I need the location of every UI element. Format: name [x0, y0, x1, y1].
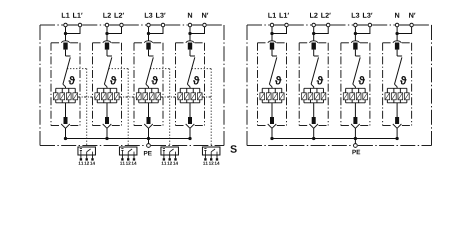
- dotted module boundary left L2: [109, 69, 129, 147]
- remote signalling contact FM1: [78, 147, 96, 165]
- wire: [107, 27, 122, 34]
- junction on PE bus: [395, 137, 398, 140]
- wire: [396, 27, 398, 41]
- wire: [189, 103, 191, 117]
- wire: [397, 27, 412, 34]
- wire: [65, 50, 67, 56]
- wire: [272, 27, 287, 34]
- label L2 L2: [310, 13, 331, 18]
- wire: [354, 27, 356, 41]
- wire: [271, 27, 273, 41]
- wire: [148, 128, 150, 138]
- thermal disconnector (bottom) right L1: [268, 117, 277, 128]
- thermal switch (disconnector) left L1: [63, 56, 71, 87]
- wire: [396, 128, 398, 138]
- terminal L2 (right L2): [312, 23, 316, 27]
- junction node L3: [354, 32, 357, 35]
- terminal N' (right N): [410, 23, 414, 27]
- thermal switch (disconnector) right L1: [269, 56, 277, 87]
- thermal disconnector (bottom) right N: [393, 117, 402, 128]
- dash-dot link at varistor level: [202, 96, 211, 98]
- dash-dot link at varistor level: [119, 96, 136, 98]
- thermal switch (disconnector) left N: [187, 56, 195, 87]
- varistor array left L1 (4 parallel varistors): [53, 87, 77, 103]
- wire: [148, 103, 150, 117]
- junction on PE bus: [64, 137, 67, 140]
- inner dash-dot enclosure (protection path left L1): [51, 43, 80, 126]
- thermal disconnector (bottom) left N: [186, 117, 195, 128]
- outer dash-dot enclosure (left SPD block): [40, 25, 224, 146]
- thermal switch (disconnector) right N: [395, 56, 403, 87]
- inner dash-dot enclosure (protection path right L3): [341, 43, 370, 126]
- varistor array left L2 (4 parallel varistors): [95, 87, 119, 103]
- terminal L1' (left L1): [78, 23, 82, 27]
- varistor array left L3 (4 parallel varistors): [136, 87, 160, 103]
- wire: [313, 27, 315, 41]
- junction on PE bus: [147, 137, 150, 140]
- wire: [313, 103, 315, 117]
- junction on PE bus: [270, 137, 273, 140]
- thermal disconnector (bottom) right L3: [351, 117, 360, 128]
- junction node N: [395, 32, 398, 35]
- dotted module boundary left L3: [150, 69, 170, 147]
- thermal disconnector (top) right L2: [310, 41, 318, 50]
- wire PE stub: [148, 139, 150, 144]
- thermal disconnector (bottom) left L1: [61, 117, 70, 128]
- wire: [65, 128, 67, 138]
- wire: [314, 27, 329, 34]
- inner dash-dot enclosure (protection path left N): [176, 43, 205, 126]
- label PE: [144, 151, 152, 155]
- label temperature symbol: [110, 76, 117, 85]
- label temperature symbol: [69, 76, 76, 85]
- wire: [271, 50, 273, 56]
- terminal L3 (left L3): [147, 23, 151, 27]
- label temperature symbol: [358, 76, 365, 85]
- wire: [190, 27, 205, 34]
- terminal L2 (left L2): [105, 23, 109, 27]
- varistor array right L2 (4 parallel varistors): [302, 87, 326, 103]
- label N N: [188, 13, 208, 18]
- varistor array right L3 (4 parallel varistors): [343, 87, 367, 103]
- junction node L1: [270, 32, 273, 35]
- terminal L3' (left L3): [161, 23, 165, 27]
- inner dash-dot enclosure (protection path left L3): [134, 43, 163, 126]
- label temperature symbol: [400, 76, 407, 85]
- label L3 L3: [145, 13, 166, 18]
- wire: [354, 103, 356, 117]
- wire: [106, 103, 108, 117]
- thermal disconnector (top) right L3: [351, 41, 359, 50]
- wire: [355, 27, 370, 34]
- label L1 L1: [268, 13, 289, 18]
- wire: [396, 103, 398, 117]
- label N N: [395, 13, 415, 18]
- junction node L2: [312, 32, 315, 35]
- dash-dot link at varistor level: [78, 96, 95, 98]
- outer dash-dot enclosure (right SPD block): [247, 25, 432, 146]
- remote signalling contact FM2: [119, 147, 137, 165]
- thermal disconnector (top) right L1: [268, 41, 276, 50]
- inner dash-dot enclosure (protection path right L2): [299, 43, 328, 126]
- wire: [106, 50, 108, 56]
- label temperature symbol: [275, 76, 282, 85]
- junction on PE bus: [188, 137, 191, 140]
- wire: [354, 50, 356, 56]
- thermal disconnector (top) left N: [186, 41, 194, 50]
- wire: [189, 50, 191, 56]
- junction node L1: [64, 32, 67, 35]
- wire PE stub: [354, 139, 356, 144]
- thermal disconnector (bottom) left L3: [144, 117, 153, 128]
- junction on PE bus: [312, 137, 315, 140]
- thermal switch (disconnector) right L3: [353, 56, 361, 87]
- varistor array right L1 (4 parallel varistors): [260, 87, 284, 103]
- thermal switch (disconnector) left L3: [146, 56, 154, 87]
- thermal disconnector (bottom) right L2: [309, 117, 318, 128]
- label L1 L1: [62, 13, 83, 18]
- label temperature symbol: [152, 76, 159, 85]
- label PE: [352, 150, 360, 154]
- label temperature symbol: [317, 76, 324, 85]
- wire: [396, 50, 398, 56]
- wire: [148, 27, 150, 41]
- terminal L1' (right L1): [285, 23, 289, 27]
- wire: [189, 128, 191, 138]
- terminal L2' (left L2): [120, 23, 124, 27]
- inner dash-dot enclosure (protection path left L2): [93, 43, 122, 126]
- wire: [106, 27, 108, 41]
- thermal disconnector (top) left L3: [144, 41, 152, 50]
- wire: [313, 128, 315, 138]
- wire: [354, 128, 356, 138]
- wire: [65, 103, 67, 117]
- junction node L2: [105, 32, 108, 35]
- varistor array right N (4 parallel varistors): [385, 87, 409, 103]
- label S (remote signalling version): [230, 145, 236, 153]
- thermal switch (disconnector) left L2: [104, 56, 112, 87]
- wire: [189, 27, 191, 41]
- dash-dot link at varistor level: [161, 96, 178, 98]
- label temperature symbol: [193, 76, 200, 85]
- dotted module boundary left N: [192, 69, 212, 147]
- junction node L3: [147, 32, 150, 35]
- wire: [313, 50, 315, 56]
- wire: [271, 103, 273, 117]
- terminal N (right N): [395, 23, 399, 27]
- junction on PE bus: [354, 137, 357, 140]
- inner dash-dot enclosure (protection path right L1): [258, 43, 287, 126]
- terminal L3' (right L3): [368, 23, 372, 27]
- terminal PE: [354, 144, 358, 148]
- thermal disconnector (top) right N: [393, 41, 401, 50]
- PE bus wire: [66, 138, 191, 140]
- wire: [149, 27, 164, 34]
- varistor array left N (4 parallel varistors): [178, 87, 202, 103]
- terminal L3 (right L3): [354, 23, 358, 27]
- thermal disconnector (bottom) left L2: [103, 117, 112, 128]
- thermal disconnector (top) left L2: [103, 41, 111, 50]
- terminal PE: [147, 144, 151, 148]
- inner dash-dot enclosure (protection path right N): [383, 43, 412, 126]
- thermal switch (disconnector) right L2: [311, 56, 319, 87]
- label L2 L2: [103, 13, 124, 18]
- remote signalling contact FM3: [161, 147, 179, 165]
- terminal N' (left N): [203, 23, 207, 27]
- terminal L1 (right L1): [270, 23, 274, 27]
- wires linking terminal pairs: [68, 24, 202, 26]
- terminal N (left N): [188, 23, 192, 27]
- wire: [106, 128, 108, 138]
- wire: [65, 27, 67, 41]
- wire: [271, 128, 273, 138]
- terminal L1 (left L1): [64, 23, 68, 27]
- wires linking terminal pairs: [274, 24, 409, 26]
- thermal disconnector (top) left L1: [61, 41, 69, 50]
- wire: [148, 50, 150, 56]
- wire: [66, 27, 81, 34]
- terminal L2' (right L2): [326, 23, 330, 27]
- junction node N: [188, 32, 191, 35]
- remote signalling contact FM4: [202, 147, 220, 165]
- junction on PE bus: [105, 137, 108, 140]
- dotted module boundary left L1: [67, 69, 87, 147]
- PE bus wire: [272, 138, 397, 140]
- label L3 L3: [352, 13, 373, 18]
